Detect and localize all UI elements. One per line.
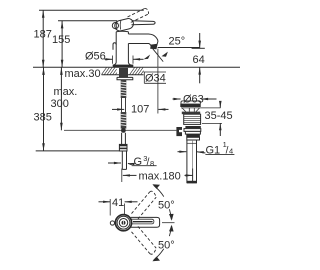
top view outer circle: [115, 215, 131, 231]
hose plain segment: [122, 133, 126, 145]
svg-text:385: 385: [34, 112, 52, 124]
svg-text:187: 187: [34, 29, 52, 41]
top view lever bar: [131, 217, 160, 227]
top view pull knob: [110, 221, 114, 225]
dim Ø63: [173, 98, 217, 100]
Ø34 label leader: [144, 72, 167, 83]
svg-text:Ø63: Ø63: [183, 93, 204, 105]
svg-text:G: G: [134, 156, 143, 168]
svg-text:107: 107: [131, 103, 149, 115]
svg-text:4: 4: [229, 147, 233, 156]
dim 64: [192, 33, 205, 83]
drain band rows: [184, 126, 201, 140]
dim G1 1/4 arrows: [178, 151, 235, 155]
deck surface line: [33, 66, 240, 68]
svg-text:64: 64: [193, 54, 205, 66]
waste body threaded: [182, 112, 201, 125]
flexible hose textured: [121, 80, 127, 129]
supply shank below deck: locknut: [119, 68, 128, 77]
dim max180: [122, 169, 193, 183]
dim G3/8 arrows: [108, 162, 157, 166]
drain flange white top: [181, 101, 201, 104]
dim 107: [112, 68, 169, 114]
svg-text:Ø56: Ø56: [85, 51, 106, 63]
svg-text:300: 300: [51, 98, 69, 110]
lever arm dashed raised position: [128, 8, 149, 22]
supply nipple tube: [122, 151, 126, 169]
escutcheon base dark band: [113, 65, 134, 68]
faucet body cylinder: [116, 31, 128, 62]
svg-text:41: 41: [112, 197, 124, 209]
dashed lever rotated up: [132, 191, 157, 219]
dim 155 vertical line: [58, 21, 117, 68]
dim 385 vertical line: [36, 67, 120, 151]
lever arm solid: [132, 21, 156, 25]
spout: [128, 34, 158, 48]
pop-up horizontal rod: [64, 129, 176, 131]
tailpipe: [187, 140, 197, 183]
escutcheon: [113, 63, 132, 66]
svg-text:max.: max.: [54, 86, 78, 98]
svg-text:max.30: max.30: [65, 68, 101, 80]
svg-text:155: 155: [52, 34, 70, 46]
dim 41: [99, 199, 138, 216]
svg-text:50°: 50°: [158, 239, 175, 251]
pop-up rod joint dot: [121, 128, 126, 133]
dashed lever rotated down: [132, 226, 157, 254]
svg-text:max.180: max.180: [139, 170, 181, 182]
svg-text:Ø34: Ø34: [145, 73, 166, 85]
svg-text:50°: 50°: [158, 200, 175, 212]
drain flange dark band: [180, 104, 200, 107]
svg-text:8: 8: [150, 159, 154, 168]
handle cap (lever knob): [112, 17, 134, 32]
50 deg arcs with text gaps: [152, 184, 174, 261]
dim 187 vertical line: [39, 10, 144, 67]
hose end nut G3/8: [119, 144, 127, 151]
shank washer: [117, 77, 133, 79]
dim 35-45: [202, 101, 222, 136]
deck section hatching right: [130, 68, 144, 75]
svg-text:35-45: 35-45: [205, 110, 233, 122]
25 degree reference: [144, 48, 200, 68]
dim max300 vertical line: [60, 67, 63, 130]
waste neck: [182, 108, 200, 112]
dim Ø56 arrows: [105, 56, 144, 64]
deck section hatching left: [102, 68, 117, 75]
pull-rod knob behind spout: [113, 43, 116, 50]
flange under lip: [181, 107, 221, 109]
svg-text:25°: 25°: [169, 36, 186, 48]
svg-text:G1: G1: [206, 144, 221, 156]
deck bottom line: [102, 74, 144, 76]
aerator end dark: [150, 44, 157, 49]
rod tee nut: [176, 127, 182, 136]
